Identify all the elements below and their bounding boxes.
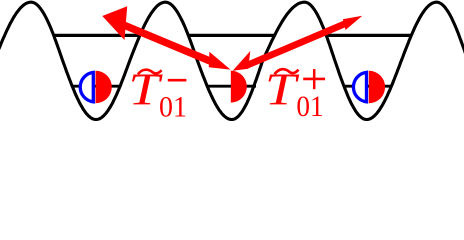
svg-text:01: 01 [159,91,187,124]
svg-text:01: 01 [296,91,323,123]
